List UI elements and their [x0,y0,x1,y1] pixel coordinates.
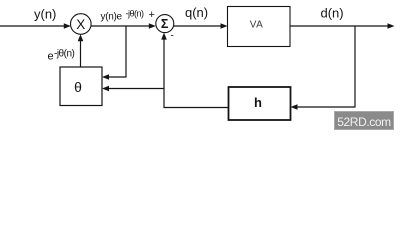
svg-text:52RD.com: 52RD.com [337,115,391,129]
svg-text:y(n): y(n) [34,7,56,22]
box VA [228,7,291,47]
box h [229,87,291,120]
wire branch to theta box upper input [102,26,126,80]
wire branch down to h box [291,26,356,110]
wire multiplier to summer [91,23,156,29]
watermark 52RD.com [335,112,394,130]
wire VA output d(n) [290,23,395,29]
svg-text:+: + [149,9,155,21]
wire h output feedback to summer [161,33,228,108]
svg-text:VA: VA [250,20,264,31]
wire theta output to multiplier [78,34,84,67]
svg-text:-: - [171,31,174,42]
label e^-jθ(n) [48,49,75,63]
svg-text:e: e [48,51,54,63]
box theta [60,67,102,106]
wire input y(n) [0,23,71,29]
wire branch to theta box lower input [102,86,164,92]
label y(n)e^-jθ(n) [101,9,145,23]
svg-text:X: X [76,17,85,32]
svg-text:-jθ(n): -jθ(n) [126,9,145,19]
svg-text:y(n)e: y(n)e [101,12,123,23]
svg-text:-jθ(n): -jθ(n) [54,49,75,60]
svg-text:d(n): d(n) [321,6,344,21]
multiplier X [71,14,92,35]
wire summer to VA box [174,23,228,29]
svg-text:θ: θ [74,79,82,95]
svg-text:h: h [254,95,262,110]
svg-text:q(n): q(n) [185,5,208,20]
svg-text:Σ: Σ [161,17,169,31]
summer Σ [156,15,174,33]
